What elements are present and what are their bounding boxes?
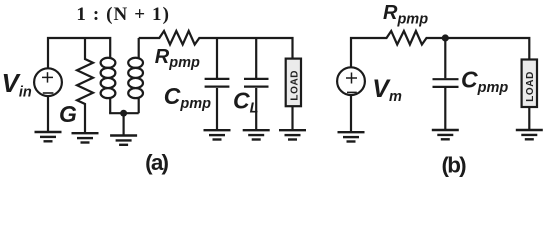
svg-text:Vm: Vm (372, 75, 402, 105)
svg-text:Rpmp: Rpmp (155, 46, 200, 71)
svg-text:LOAD: LOAD (525, 71, 536, 102)
svg-text:Rpmp: Rpmp (383, 2, 428, 28)
svg-text:Cpmp: Cpmp (164, 83, 211, 112)
svg-text:(a): (a) (145, 150, 168, 175)
svg-text:CL: CL (233, 88, 258, 117)
svg-text:Cpmp: Cpmp (461, 66, 508, 95)
svg-text:1 : (N + 1): 1 : (N + 1) (76, 4, 170, 25)
svg-text:G: G (59, 101, 77, 127)
svg-text:(b): (b) (442, 152, 467, 177)
svg-text:LOAD: LOAD (289, 70, 300, 101)
svg-text:Vin: Vin (2, 68, 32, 101)
